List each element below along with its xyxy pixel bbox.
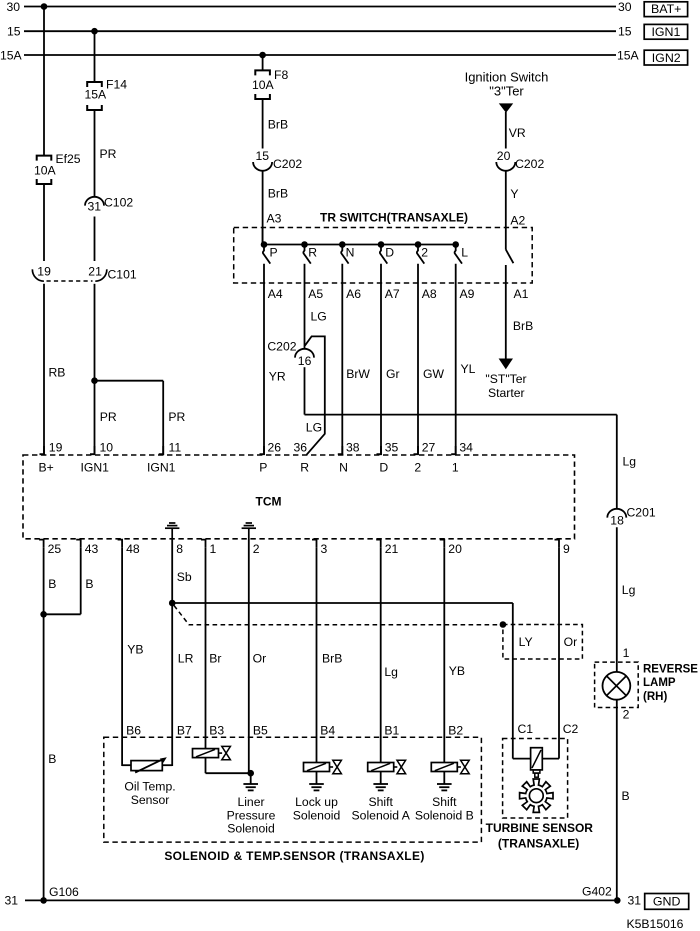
svg-text:48: 48 — [126, 542, 140, 556]
fuse Ef25 10A — [37, 156, 52, 161]
svg-text:REVERSE: REVERSE — [643, 663, 698, 675]
svg-text:IGN1: IGN1 — [147, 461, 176, 475]
switch contact R — [301, 241, 308, 248]
connector C101 pin 19 (arc) — [32, 269, 44, 281]
svg-text:YL: YL — [461, 362, 476, 376]
ground terminal GND — [645, 894, 689, 910]
node: B join — [40, 611, 47, 618]
connector C202 pin 15 (arc up) — [253, 162, 272, 171]
svg-text:A4: A4 — [268, 287, 283, 301]
ground (liner pressure solenoid) — [250, 773, 252, 784]
TCM pin 43 exit — [76, 540, 81, 548]
svg-text:D: D — [385, 246, 394, 260]
svg-text:RB: RB — [49, 366, 66, 380]
wire: lamp down to G402 — [616, 700, 618, 901]
fuse F14 15A — [87, 82, 102, 87]
svg-text:Shift: Shift — [369, 795, 394, 809]
svg-text:C202: C202 — [515, 157, 544, 171]
svg-text:LAMP: LAMP — [643, 677, 676, 689]
TCM pin 27 entry — [414, 446, 419, 454]
svg-text:15: 15 — [256, 149, 270, 163]
svg-text:(TRANSAXLE): (TRANSAXLE) — [498, 837, 579, 851]
wire: pin 20 down to B2 shift solenoid B — [443, 548, 445, 763]
TCM pin 9 exit — [555, 540, 560, 548]
svg-text:(RH): (RH) — [643, 691, 667, 703]
svg-text:BrB: BrB — [268, 187, 288, 201]
TR switch dashed box — [234, 228, 533, 284]
svg-text:34: 34 — [459, 440, 473, 454]
wire: N contact down to pin A6 — [341, 264, 343, 455]
svg-text:LG: LG — [306, 420, 322, 434]
wire: pin 3 down to B4 lockup solenoid — [316, 548, 318, 763]
turbine sensor stem — [535, 773, 539, 777]
TCM pin 34 entry — [451, 446, 456, 454]
node: junction rail15 / F14 drop — [91, 28, 98, 35]
svg-text:2: 2 — [253, 542, 260, 556]
TCM pin 20 exit — [440, 540, 445, 548]
node: ground G106 — [40, 897, 47, 904]
wire: F8 to connector C202 pin 15 — [262, 99, 264, 149]
svg-text:BAT+: BAT+ — [651, 2, 681, 16]
ground (shift solenoid A) — [380, 772, 382, 785]
svg-text:31: 31 — [88, 200, 102, 214]
wire: rail15 down to fuse F14 — [94, 31, 96, 82]
svg-text:2: 2 — [421, 246, 428, 260]
svg-text:B1: B1 — [384, 723, 399, 737]
svg-text:Pressure: Pressure — [227, 808, 276, 822]
svg-text:A1: A1 — [514, 287, 529, 301]
svg-text:A9: A9 — [460, 287, 475, 301]
svg-text:B5: B5 — [253, 723, 268, 737]
svg-text:43: 43 — [85, 542, 99, 556]
wire: C2 into turbine coil — [542, 758, 559, 760]
wire: pin 9 down to C2 — [558, 548, 560, 759]
svg-text:Ignition Switch: Ignition Switch — [465, 69, 549, 84]
svg-text:C201: C201 — [627, 506, 656, 520]
power terminal BAT+ — [644, 2, 687, 17]
wire: R contact down to pin A5 — [304, 264, 306, 349]
svg-text:1: 1 — [623, 646, 630, 660]
svg-text:Solenoid B: Solenoid B — [415, 808, 474, 822]
svg-text:R: R — [300, 461, 309, 475]
svg-text:"3"Ter: "3"Ter — [489, 84, 524, 99]
wire: P contact down to pin A4 — [263, 264, 265, 455]
svg-text:B4: B4 — [320, 723, 335, 737]
svg-text:L: L — [461, 246, 468, 260]
svg-text:TR SWITCH(TRANSAXLE): TR SWITCH(TRANSAXLE) — [320, 211, 468, 225]
switch contact 2 — [415, 241, 422, 248]
svg-text:GW: GW — [423, 367, 444, 381]
wire: C102 to C101 pin 21 — [94, 217, 96, 262]
svg-text:N: N — [346, 246, 355, 260]
svg-text:A5: A5 — [308, 287, 323, 301]
svg-text:LG: LG — [311, 309, 327, 323]
TCM pin 21 exit — [376, 540, 381, 548]
svg-text:Shift: Shift — [432, 795, 457, 809]
ignition switch contact A1 (blade) — [505, 228, 507, 250]
svg-text:IGN1: IGN1 — [651, 25, 680, 39]
wire: lamp feed down to C201 — [616, 415, 618, 509]
turbine sensor collar — [533, 770, 540, 773]
svg-text:B: B — [85, 577, 93, 591]
svg-text:BrB: BrB — [322, 652, 342, 666]
svg-text:1: 1 — [210, 542, 217, 556]
svg-text:30: 30 — [7, 0, 21, 14]
svg-text:BrB: BrB — [513, 319, 533, 333]
svg-text:Liner: Liner — [237, 795, 264, 809]
TCM internal ground (pin 2) — [246, 522, 252, 524]
svg-text:8: 8 — [176, 542, 183, 556]
svg-text:B3: B3 — [209, 723, 224, 737]
svg-text:PR: PR — [100, 147, 117, 161]
wire: C101-21 down to IGN1 junction — [94, 284, 96, 381]
wire: pin 21 down to B1 shift solenoid A — [380, 548, 382, 763]
wire: pin 1 down to B3 solenoid — [205, 548, 207, 749]
solenoid Shift B (B2) — [431, 763, 457, 772]
svg-text:Ef25: Ef25 — [56, 152, 81, 166]
svg-text:Lg: Lg — [623, 454, 637, 468]
svg-text:A3: A3 — [267, 212, 282, 226]
svg-text:N: N — [339, 461, 348, 475]
svg-text:1: 1 — [452, 461, 459, 475]
svg-text:B+: B+ — [39, 461, 54, 475]
turbine sensor dashed box — [503, 739, 568, 819]
svg-text:F8: F8 — [274, 68, 288, 82]
svg-text:Or: Or — [564, 635, 578, 649]
svg-text:B: B — [48, 577, 56, 591]
svg-text:B: B — [48, 752, 56, 766]
svg-text:38: 38 — [346, 440, 360, 454]
starter terminal arrow — [499, 359, 513, 370]
node: dashed branch end at LY box — [500, 621, 507, 628]
solenoid Lock up (B4) — [304, 763, 330, 772]
svg-text:B6: B6 — [126, 723, 141, 737]
svg-text:C202: C202 — [273, 157, 302, 171]
fuse F8 10A — [255, 70, 270, 75]
wire: branch to second IGN1 drop — [95, 380, 164, 382]
wire: A3 stub into box — [262, 228, 264, 245]
svg-text:Lg: Lg — [384, 665, 398, 679]
svg-text:21: 21 — [88, 265, 102, 279]
svg-text:A8: A8 — [422, 287, 437, 301]
svg-text:A2: A2 — [510, 213, 525, 227]
svg-text:Oil Temp.: Oil Temp. — [124, 780, 175, 794]
wire: pin 43 down and join — [80, 548, 82, 615]
connector C202 pin 20 (arc up) — [496, 162, 515, 171]
switch contact P — [261, 241, 268, 248]
power terminal IGN2 — [644, 50, 687, 65]
TCM pin 38 entry — [338, 446, 343, 454]
node: junction rail15A / F8 drop — [259, 52, 266, 59]
turbine sensor gear — [520, 779, 553, 812]
svg-text:15: 15 — [618, 25, 632, 39]
svg-text:B2: B2 — [448, 723, 463, 737]
wire: rail15A down to fuse F8 — [262, 55, 264, 70]
connector C202 pin 16 (arc) — [295, 349, 314, 358]
terminal arrow from ignition switch — [499, 103, 513, 112]
svg-text:R: R — [308, 246, 317, 260]
svg-text:G106: G106 — [49, 885, 79, 899]
wire: C202-20 down to TR switch A2 — [505, 171, 507, 228]
svg-text:GND: GND — [653, 895, 681, 909]
connector C201 pin 18 (arc) — [607, 509, 626, 518]
svg-text:19: 19 — [49, 440, 63, 454]
svg-text:Br: Br — [209, 652, 221, 666]
svg-text:30: 30 — [618, 0, 632, 14]
svg-text:G402: G402 — [582, 885, 612, 899]
svg-text:IGN2: IGN2 — [652, 51, 681, 65]
TCM pin 10 entry — [90, 446, 95, 454]
TCM pin 19 entry — [40, 446, 45, 454]
svg-text:Sb: Sb — [177, 570, 192, 584]
wire: dashed option branch — [174, 606, 501, 625]
node: ground G402 junction — [614, 897, 621, 904]
svg-text:A6: A6 — [346, 287, 361, 301]
wire: R branch jog — [305, 336, 325, 454]
svg-text:B7: B7 — [177, 723, 192, 737]
wire: L contact down to pin A9 — [455, 264, 457, 455]
svg-text:YB: YB — [127, 643, 143, 657]
connector C102 pin 31 (arc) — [85, 197, 104, 206]
svg-text:TCM: TCM — [256, 495, 282, 509]
wire: rail30 down to fuse Ef25 — [43, 7, 45, 156]
turbine sensor coil — [531, 748, 543, 770]
svg-text:35: 35 — [385, 440, 399, 454]
svg-text:Sensor: Sensor — [131, 793, 170, 807]
svg-text:LY: LY — [519, 635, 533, 649]
TCM pin 35 entry — [377, 446, 382, 454]
wire: rail 15A (IGN2) — [24, 54, 616, 56]
wire: C202-16 down to lamp feed line — [304, 367, 306, 414]
TCM dashed box — [23, 455, 575, 539]
svg-text:Starter: Starter — [488, 386, 525, 400]
svg-text:LR: LR — [178, 652, 194, 666]
option dashed box LY/Or — [503, 625, 583, 660]
svg-text:15: 15 — [7, 25, 21, 39]
svg-text:15A: 15A — [0, 48, 23, 62]
wire: F14 to connector C102 — [94, 110, 96, 197]
power terminal IGN1 — [644, 24, 687, 39]
node: junction rail30 / Ef25 drop — [41, 3, 48, 10]
svg-text:10: 10 — [100, 440, 114, 454]
wire: 2 contact down to pin A8 — [417, 264, 419, 455]
ground (shift solenoid B) — [443, 772, 445, 785]
wire: C201 to reverse lamp — [616, 527, 618, 672]
svg-text:B: B — [622, 789, 630, 803]
wire: pin 25 down (B) — [43, 548, 45, 901]
wire: pin 48 down to B6 — [121, 548, 123, 766]
solenoid Shift A (B1) — [368, 763, 394, 772]
TCM pin 11 entry — [159, 446, 164, 454]
svg-text:3: 3 — [321, 542, 328, 556]
svg-text:BrW: BrW — [346, 367, 370, 381]
svg-text:19: 19 — [37, 265, 51, 279]
svg-text:YB: YB — [449, 664, 465, 678]
ground (lock up solenoid) — [316, 772, 318, 785]
wire: ground rail 31 — [25, 899, 617, 901]
svg-text:31: 31 — [628, 894, 642, 908]
wire: A1 below blade — [505, 265, 507, 283]
TCM pin 48 exit — [118, 540, 123, 548]
svg-text:20: 20 — [448, 542, 462, 556]
wire: C101-19 down to TCM pin 19 (RB) — [43, 284, 45, 455]
node: IGN1 branch junction — [91, 377, 98, 384]
svg-text:C101: C101 — [108, 267, 137, 281]
svg-text:C102: C102 — [104, 196, 133, 210]
svg-text:P: P — [270, 246, 278, 260]
TCM pin 1 exit — [201, 540, 206, 548]
svg-text:25: 25 — [48, 542, 62, 556]
svg-text:36: 36 — [294, 440, 308, 454]
svg-text:26: 26 — [268, 440, 282, 454]
svg-text:15A: 15A — [617, 48, 640, 62]
svg-text:Gr: Gr — [386, 367, 400, 381]
svg-text:2: 2 — [414, 461, 421, 475]
svg-text:"ST"Ter: "ST"Ter — [485, 372, 526, 386]
wire: rail 15 (IGN1) — [24, 30, 616, 32]
TCM pin 26 entry — [260, 446, 265, 454]
wire: junction down to TCM pin 10 — [94, 381, 96, 455]
wire: D contact down to pin A7 — [380, 264, 382, 455]
svg-text:31: 31 — [5, 894, 19, 908]
wire: A1 down to starter arrow — [505, 283, 507, 359]
svg-text:SOLENOID & TEMP.SENSOR (TRANSA: SOLENOID & TEMP.SENSOR (TRANSAXLE) — [164, 849, 424, 863]
svg-text:P: P — [259, 461, 267, 475]
svg-text:21: 21 — [385, 542, 399, 556]
wire: rail 30 (BAT+) — [24, 6, 616, 8]
svg-text:10A: 10A — [34, 163, 57, 177]
svg-text:Lock up: Lock up — [295, 795, 338, 809]
wire: B6 into thermistor — [122, 764, 131, 766]
svg-text:IGN1: IGN1 — [81, 461, 110, 475]
svg-text:D: D — [379, 461, 388, 475]
wire: B5 down to junction — [248, 772, 250, 774]
svg-text:16: 16 — [298, 354, 312, 368]
switch contact N — [339, 241, 346, 248]
svg-text:Lg: Lg — [622, 583, 636, 597]
svg-text:15A: 15A — [85, 87, 108, 101]
connector C101 pin 21 (arc) — [95, 269, 107, 281]
node: liner pressure ground junction — [247, 770, 254, 777]
wire: Ef25 to connector C101 pin 19 — [43, 184, 45, 261]
svg-text:10A: 10A — [252, 78, 275, 92]
svg-text:18: 18 — [610, 513, 624, 527]
svg-text:20: 20 — [497, 149, 511, 163]
switch contact L — [452, 241, 459, 248]
TCM pin 25 exit — [39, 540, 44, 548]
svg-text:Or: Or — [253, 652, 267, 666]
svg-text:Solenoid A: Solenoid A — [352, 808, 411, 822]
svg-text:Solenoid: Solenoid — [227, 822, 274, 836]
svg-text:C2: C2 — [563, 722, 579, 736]
svg-text:PR: PR — [168, 410, 185, 424]
svg-text:27: 27 — [422, 440, 436, 454]
svg-text:11: 11 — [169, 440, 182, 454]
connector C101 dashed link — [47, 280, 93, 282]
wire: pin 2 down to B5 — [248, 539, 250, 773]
TCM internal ground (pin 8) — [169, 522, 175, 524]
svg-text:F14: F14 — [106, 77, 127, 91]
wire: B3 coil to B5 junction — [205, 758, 207, 774]
svg-text:K5B15016: K5B15016 — [627, 917, 684, 931]
wire: TR switch bus — [264, 244, 456, 246]
svg-text:9: 9 — [563, 542, 570, 556]
svg-text:2: 2 — [623, 707, 630, 721]
TCM pin 3 exit — [312, 540, 317, 548]
svg-text:C202: C202 — [267, 340, 296, 354]
svg-text:BrB: BrB — [268, 117, 288, 131]
thermistor (oil temp sensor) — [131, 761, 162, 771]
svg-text:Solenoid: Solenoid — [293, 808, 340, 822]
solenoid coil B3 (liner pressure) — [193, 749, 219, 758]
reverse lamp dashed box — [595, 662, 639, 707]
svg-text:VR: VR — [509, 126, 526, 140]
svg-text:TURBINE SENSOR: TURBINE SENSOR — [486, 821, 594, 835]
node: pin8 branch junction — [169, 600, 176, 607]
reverse lamp bulb — [603, 672, 631, 700]
switch contact D — [378, 241, 385, 248]
svg-text:YR: YR — [269, 369, 286, 383]
solenoid/temp-sensor dashed box — [104, 737, 482, 842]
wire: C202-15 to TR switch pin A3 — [262, 171, 264, 245]
svg-text:A7: A7 — [385, 287, 400, 301]
svg-text:PR: PR — [100, 410, 117, 424]
wire: lamp feed line to right edge — [305, 414, 617, 416]
wire: pin 8 down from ground — [171, 539, 173, 766]
svg-text:Y: Y — [510, 187, 518, 201]
wire: solid branch to LY (turbine C1 feed) — [172, 602, 513, 604]
wire: C1 into turbine coil — [513, 758, 531, 760]
svg-text:C1: C1 — [518, 722, 534, 736]
